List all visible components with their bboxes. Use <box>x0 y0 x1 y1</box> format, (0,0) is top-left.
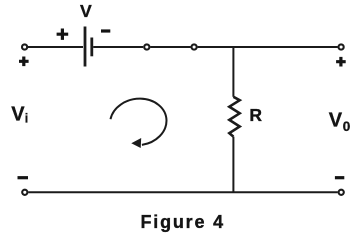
svg-text:i: i <box>25 111 28 125</box>
svg-text:R: R <box>249 105 262 125</box>
svg-text:0: 0 <box>343 119 351 134</box>
svg-text:V: V <box>80 1 92 21</box>
svg-text:V: V <box>11 103 25 125</box>
svg-text:Figure 4: Figure 4 <box>141 212 225 232</box>
svg-text:V: V <box>329 110 343 132</box>
